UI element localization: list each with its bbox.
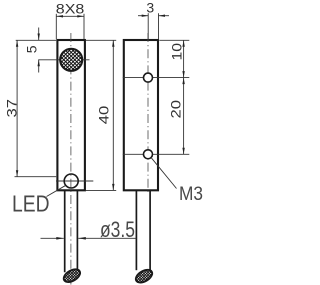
dim 8X8 extension lines [55,14,57,39]
LED leader line [47,186,66,197]
upper mounting hole [144,73,153,82]
svg-text:5: 5 [24,45,40,53]
cable side view [135,191,137,270]
dim 5 line with outside arrows [38,28,40,41]
svg-text:40: 40 [96,106,112,125]
M3 leader line [151,157,177,188]
dim 3 line and outside arrows [138,15,148,17]
vertical centerline front view [70,33,72,285]
dim cable diameter line left arrow [41,237,64,239]
svg-text:20: 20 [168,100,184,119]
svg-text:10: 10 [169,43,185,61]
dim 40 extension top [86,39,116,41]
svg-text:37: 37 [4,99,20,118]
cable end side view [134,267,155,285]
sensing face crosshatch [58,28,84,91]
side view centerline [147,33,149,194]
lower hole centerline / extension [123,153,190,155]
front view body [57,40,85,190]
upper hole centerline / extension [123,77,190,79]
dim cable diameter line right with text [78,237,136,239]
svg-text:M3: M3 [179,183,203,205]
side view body [124,40,158,190]
LED circle [64,174,78,188]
sensing face circle [60,49,82,71]
lower mounting hole [144,150,153,159]
dim 8X8 arrows [56,15,63,17]
dim 40 extension bottom [86,189,116,191]
dim 40 line [112,40,114,190]
dim 37 extension top [16,39,57,41]
cable end front view [62,267,83,285]
svg-text:3: 3 [146,0,154,15]
dim 10 line [183,40,185,77]
svg-text:LED: LED [12,191,50,217]
svg-text:8X8: 8X8 [56,0,85,16]
dim 37 line [16,40,18,176]
dim 3 extension lines [147,13,149,39]
extension right top [159,39,189,41]
sensing face horizontal centerline [38,59,89,61]
dim 20 line [183,78,185,155]
dim 37 extension bottom [15,176,57,178]
LED horizontal centerline [56,180,93,182]
dim 8X8 line [56,15,84,17]
svg-text:ø3.5: ø3.5 [100,217,135,242]
cable front view [64,191,66,272]
